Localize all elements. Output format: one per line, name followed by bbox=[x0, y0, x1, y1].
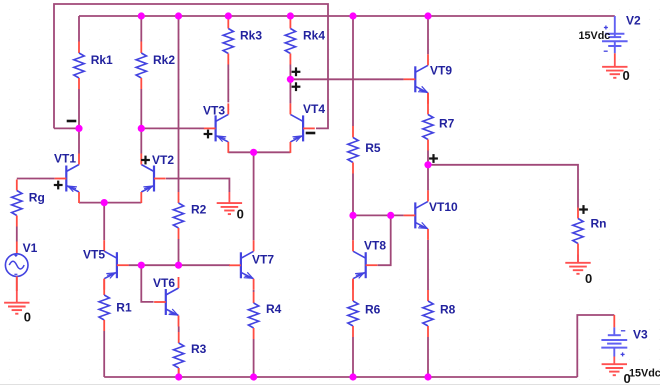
resistor R6 bbox=[348, 279, 381, 337]
wire R2 bottom to node D bbox=[178, 239, 180, 265]
plus mark VT3 base bbox=[204, 130, 213, 139]
wire node A horizontal bbox=[54, 127, 79, 129]
wire Rg to VT1 base bbox=[17, 178, 55, 180]
svg-text:R5: R5 bbox=[365, 141, 381, 155]
wire VT7 collector column bbox=[253, 152, 255, 240]
junction node E (Rk4/VT4/VT9 base) bbox=[287, 76, 294, 83]
wire node E to VT4 collector bbox=[289, 79, 291, 103]
wire R5 column from rail bbox=[352, 16, 354, 126]
ground pin V2 bbox=[614, 60, 616, 67]
wire bottom rail to V3 bbox=[577, 315, 614, 377]
wire Rk1 column upper bbox=[78, 16, 80, 42]
transistor VT4 (PNP) bbox=[290, 102, 325, 153]
resistor Rk1 bbox=[74, 42, 113, 90]
ground V1 ground bbox=[4, 303, 29, 314]
transistor VT9 (NPN) bbox=[404, 54, 453, 104]
ground V3 ground bbox=[602, 364, 627, 375]
svg-text:R4: R4 bbox=[266, 302, 282, 316]
wire VT8 base loop bbox=[378, 215, 391, 265]
DC source V2 bbox=[602, 14, 641, 61]
svg-text:0: 0 bbox=[624, 371, 631, 386]
wire Rk2 bottom to node B bbox=[140, 89, 142, 128]
wire node G to Rn bbox=[428, 165, 578, 208]
wire VT6 emitter to R3 bbox=[178, 327, 180, 333]
svg-text:15Vdc: 15Vdc bbox=[629, 368, 660, 380]
resistor R7 bbox=[423, 93, 455, 151]
ground R2-node ground bbox=[217, 203, 242, 214]
wire Rn bottom to ground bbox=[577, 255, 579, 263]
plus mark Rn top bbox=[579, 205, 588, 214]
junction tail node VT1-VT2 emitters bbox=[101, 199, 108, 206]
junction VT3-VT4 emitters bbox=[250, 149, 257, 156]
wire Rk3 bottom to VT3 collector bbox=[227, 65, 229, 103]
svg-text:Rn: Rn bbox=[591, 217, 607, 231]
junction VT8 base node bbox=[387, 212, 394, 219]
resistor Rk4 bbox=[285, 18, 325, 65]
junction node C bbox=[138, 262, 145, 269]
wire R8 to bottom rail bbox=[427, 337, 429, 377]
wire VCC top rail bbox=[79, 15, 615, 17]
junction node F (R5/VT8) bbox=[349, 212, 356, 219]
resistor Rg bbox=[12, 180, 45, 227]
wire node C to VT6 base bbox=[141, 265, 153, 302]
wire VT9 collector column bbox=[427, 16, 429, 54]
plus mark VT1 base bbox=[54, 181, 63, 190]
svg-text:VT5: VT5 bbox=[83, 248, 105, 262]
wire Rg bottom to V1 bbox=[16, 227, 18, 242]
transistor VT5 (PNP) bbox=[83, 240, 129, 290]
wire VT1 VT2 emitters bbox=[79, 202, 141, 204]
svg-text:VT3: VT3 bbox=[203, 104, 225, 118]
svg-text:VT2: VT2 bbox=[152, 153, 174, 167]
svg-text:VT8: VT8 bbox=[364, 239, 386, 253]
svg-text:0: 0 bbox=[237, 207, 244, 222]
svg-text:Rk1: Rk1 bbox=[91, 53, 113, 67]
resistor Rk2 bbox=[136, 42, 175, 90]
svg-text:VT10: VT10 bbox=[429, 200, 458, 214]
svg-text:R6: R6 bbox=[365, 303, 381, 317]
wire VT5 base to node D wire bbox=[129, 264, 230, 266]
wire Rk4 bottom to node E bbox=[289, 65, 291, 80]
resistor R8 bbox=[423, 290, 456, 337]
minus mark VT4 base bbox=[306, 132, 316, 135]
svg-text:R1: R1 bbox=[116, 301, 132, 315]
transistor VT3 (PNP) bbox=[203, 103, 228, 152]
label 15Vdc (V2) bbox=[579, 30, 611, 42]
svg-text:15Vdc: 15Vdc bbox=[579, 30, 611, 42]
wire node E to VT9 base bbox=[290, 78, 403, 80]
resistor R4 bbox=[248, 292, 281, 339]
wire R3 to bottom rail bbox=[178, 368, 180, 377]
resistor Rn bbox=[573, 208, 607, 255]
svg-text:VT1: VT1 bbox=[54, 152, 76, 166]
wire node B to VT3 base bbox=[141, 127, 204, 129]
wire VT2 base to ground stub bbox=[166, 179, 229, 193]
svg-text:VT7: VT7 bbox=[252, 253, 274, 267]
wire R1 to bottom rail bbox=[103, 331, 105, 377]
wire R2 column from rail bbox=[178, 16, 180, 192]
resistor R5 bbox=[348, 126, 381, 174]
transistor VT1 (PNP) bbox=[54, 152, 79, 204]
wire VT3 VT4 emitters bbox=[228, 151, 290, 153]
DC source V3 bbox=[601, 315, 648, 357]
ground V2 ground bbox=[602, 67, 627, 78]
wire node A to VT1 collector bbox=[78, 128, 80, 153]
svg-text:V3: V3 bbox=[633, 328, 648, 342]
svg-text:VT4: VT4 bbox=[303, 102, 325, 116]
wire VT10 emitter to R8 bbox=[427, 240, 429, 290]
wire V1 to ground bbox=[16, 277, 18, 292]
wire feedback loop top-left bbox=[54, 4, 328, 128]
svg-text:Rk2: Rk2 bbox=[153, 53, 175, 67]
resistor R3 bbox=[174, 332, 207, 375]
ground pin V1 bbox=[16, 291, 18, 303]
transistor VT6 (NPN) bbox=[153, 276, 179, 327]
ground pin V3 bbox=[613, 357, 615, 365]
wire bottom rail bbox=[104, 376, 577, 378]
wire node F to VT10 base bbox=[353, 214, 404, 216]
wire node G to VT10 collector bbox=[427, 165, 429, 191]
wire R5 bottom to node F bbox=[352, 174, 354, 216]
svg-text:V2: V2 bbox=[626, 14, 641, 28]
wire tail node to VT5 collector bbox=[103, 203, 105, 241]
resistor R2 bbox=[173, 192, 206, 239]
label 0 (V2 ground) bbox=[623, 68, 630, 83]
junction node A (Rk1/VT1) bbox=[75, 125, 82, 132]
plus mark node G bbox=[429, 154, 438, 163]
svg-text:Rg: Rg bbox=[29, 191, 45, 205]
junction node D (R2/VT6) bbox=[175, 262, 182, 269]
svg-text:Rk3: Rk3 bbox=[240, 29, 262, 43]
ground Rn ground bbox=[565, 263, 590, 274]
svg-text:VT9: VT9 bbox=[430, 64, 452, 78]
label 0 (V3 ground) bbox=[624, 371, 631, 386]
label 15Vdc (V3) bbox=[629, 368, 660, 380]
wire R4 to bottom rail bbox=[253, 339, 255, 377]
label 0 (Rn ground) bbox=[585, 271, 592, 286]
svg-text:0: 0 bbox=[24, 310, 31, 325]
transistor VT2 (PNP) bbox=[141, 153, 174, 203]
transistor VT10 (NPN) bbox=[404, 190, 458, 240]
plus mark node E upper bbox=[292, 67, 301, 76]
label 0 (V1 ground) bbox=[24, 310, 31, 325]
junction node B (Rk2/VT2/VT3 base) bbox=[138, 125, 145, 132]
wire R6 to bottom rail bbox=[352, 337, 354, 377]
AC source V1 bbox=[5, 241, 37, 291]
plus mark node E lower bbox=[292, 82, 301, 91]
svg-text:R7: R7 bbox=[439, 117, 455, 131]
svg-text:0: 0 bbox=[585, 271, 592, 286]
svg-text:R3: R3 bbox=[191, 342, 207, 356]
ground pin near R2 bbox=[228, 192, 230, 203]
transistor VT8 (PNP) bbox=[353, 239, 386, 290]
svg-text:Rk4: Rk4 bbox=[303, 29, 325, 43]
resistor R1 bbox=[99, 279, 132, 331]
junction node G (R7/VT10) bbox=[424, 161, 431, 168]
svg-text:VT6: VT6 bbox=[153, 276, 175, 290]
resistor Rk3 bbox=[223, 18, 262, 65]
wire VT7 emitter to R4 bbox=[253, 290, 255, 292]
wire node F to VT8 collector bbox=[352, 215, 354, 240]
wire node B to VT2 collector bbox=[140, 128, 142, 153]
svg-text:R2: R2 bbox=[191, 203, 207, 217]
svg-text:0: 0 bbox=[623, 68, 630, 83]
transistor VT7 (NPN) bbox=[229, 240, 274, 289]
wire Rk1 bottom to node bbox=[78, 89, 80, 128]
ground pin Rn bbox=[577, 255, 579, 263]
svg-text:V1: V1 bbox=[23, 241, 38, 255]
wire Rk2 column upper bbox=[140, 16, 142, 42]
plus mark VT2 bbox=[141, 156, 150, 165]
label 0 (R2-node ground) bbox=[237, 207, 244, 222]
minus mark node A bbox=[67, 120, 77, 123]
svg-text:R8: R8 bbox=[440, 303, 456, 317]
wire R7 to node G bbox=[427, 151, 429, 165]
junction dots on bottom rail bbox=[175, 373, 432, 380]
junction dots on top rail bbox=[138, 12, 432, 19]
